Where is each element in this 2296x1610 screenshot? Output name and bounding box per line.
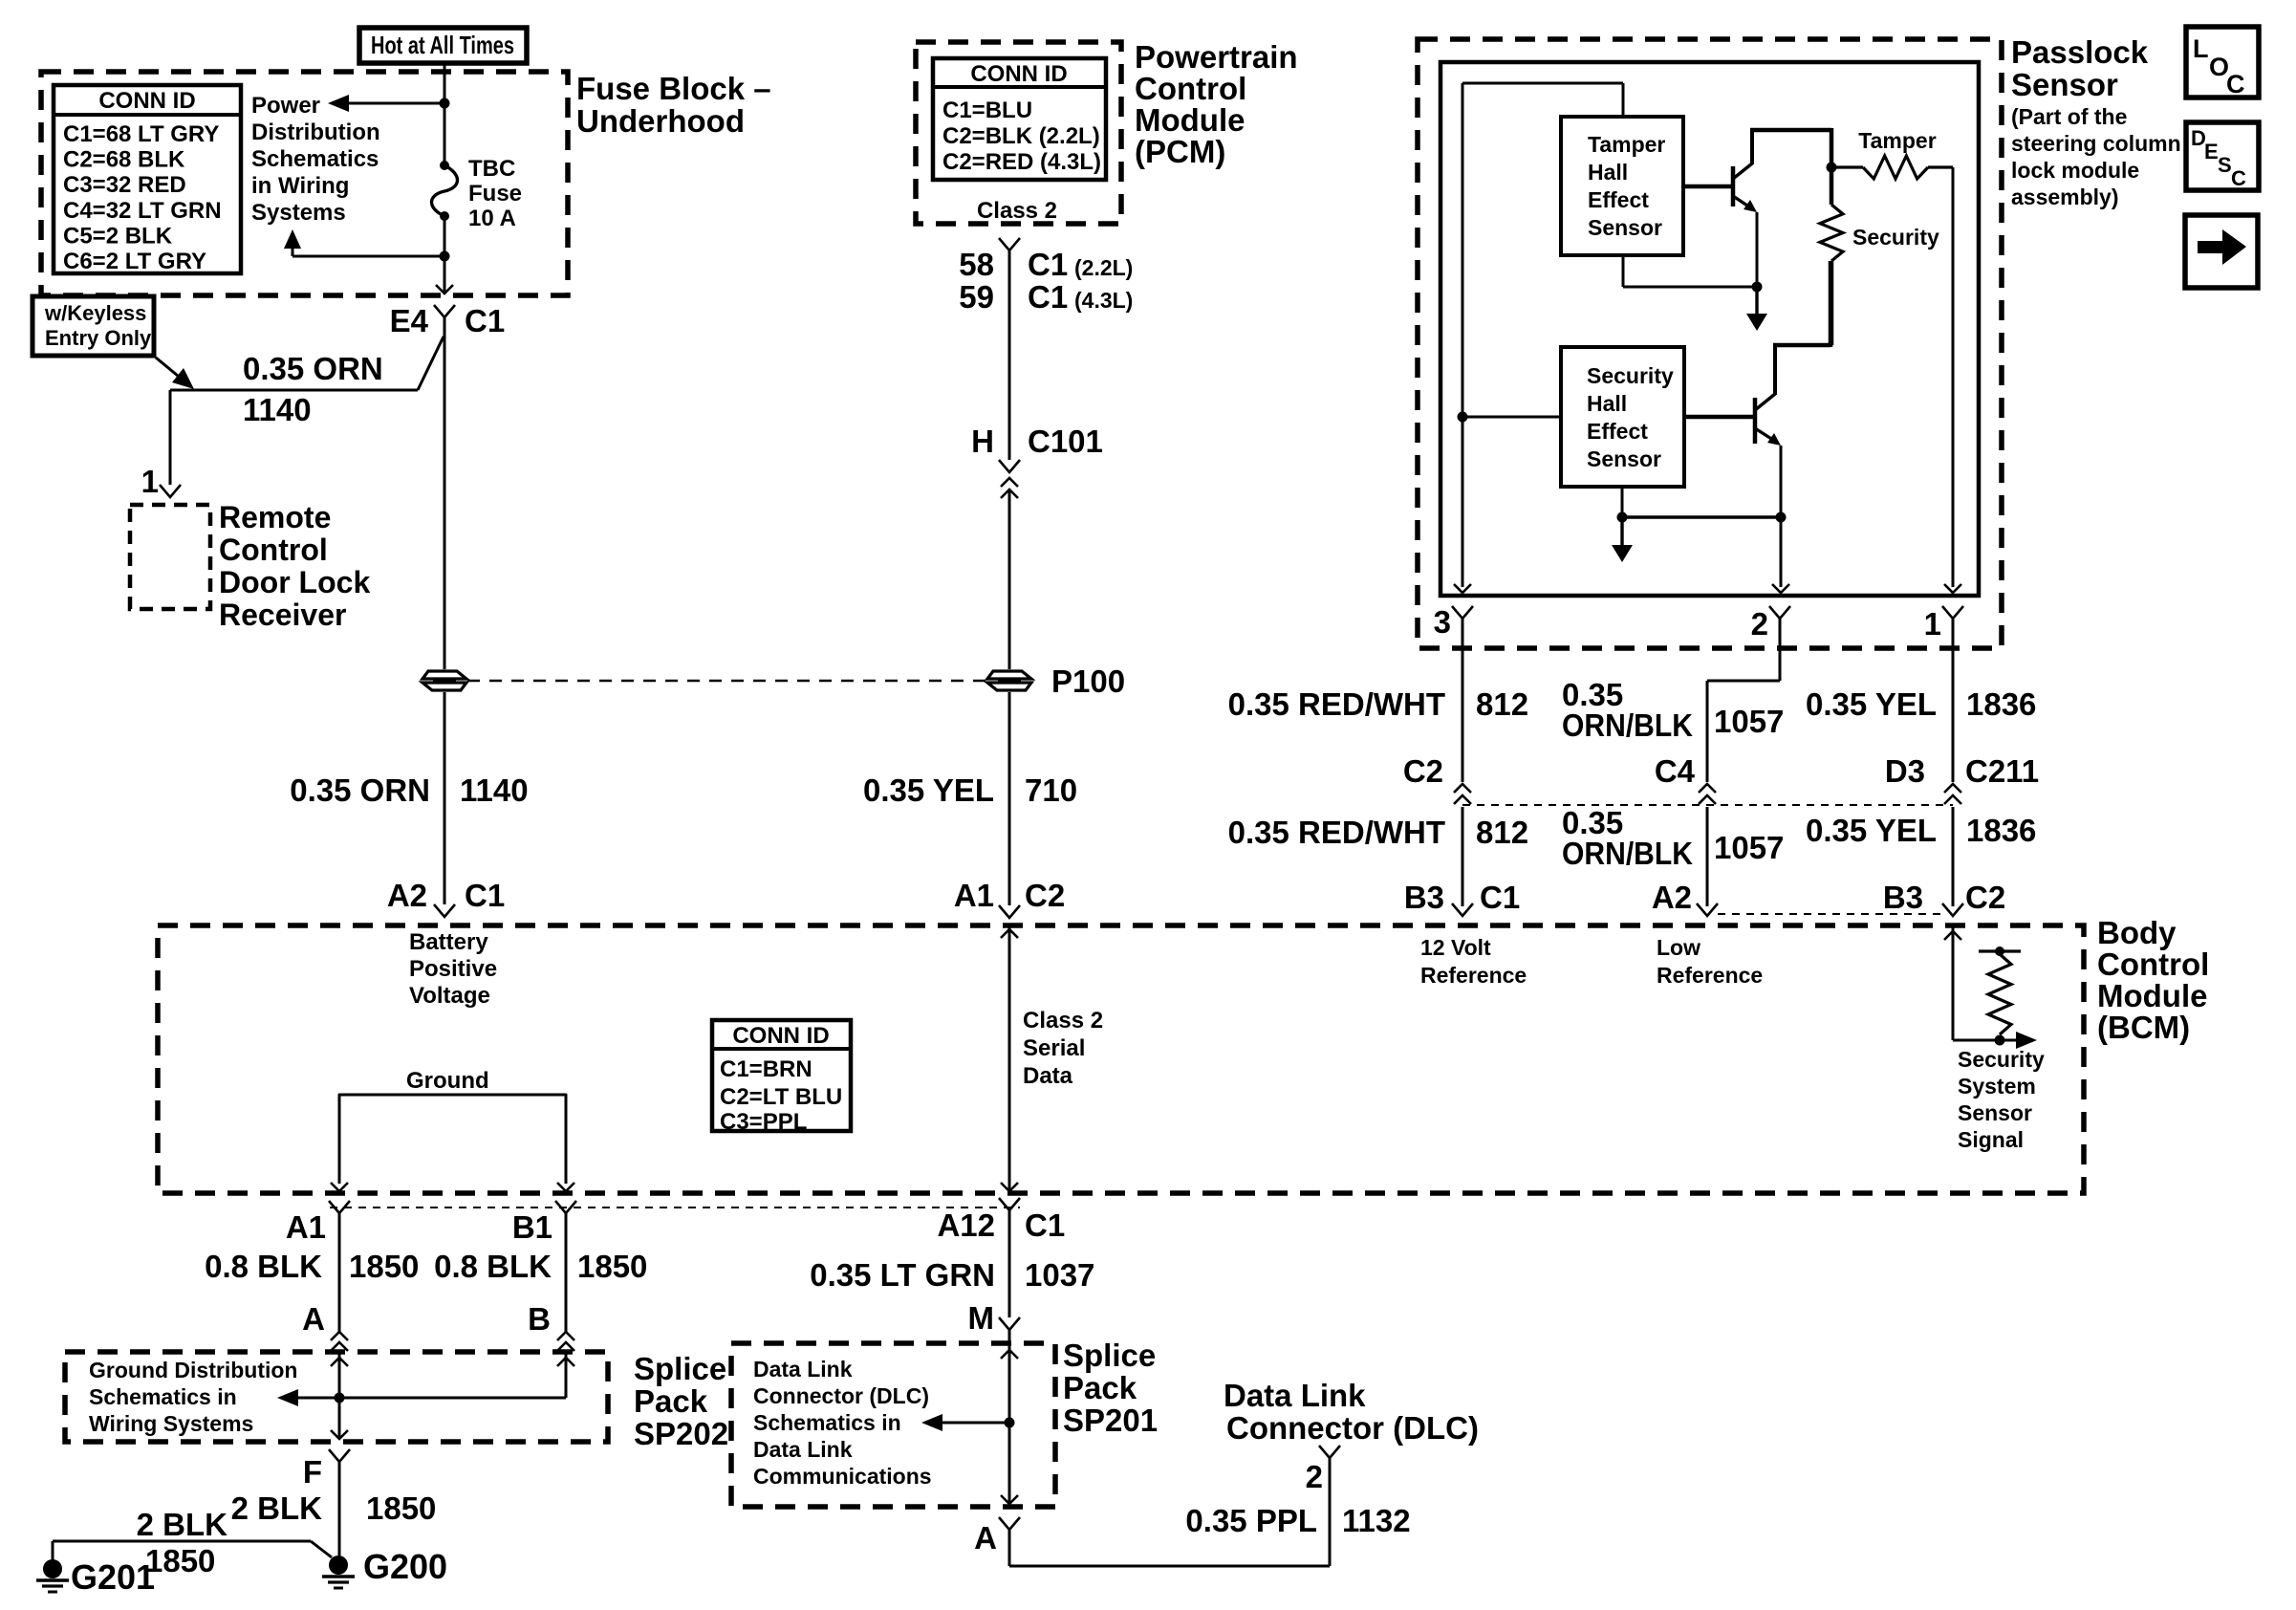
Q1 emitter diagonal [1733, 196, 1753, 209]
wire into tamper sensor top [1622, 83, 1625, 117]
wire security sensor bottom [1621, 487, 1624, 517]
Q2 collector to resistor [1829, 261, 1833, 347]
svg-text:SP202: SP202 [634, 1416, 728, 1451]
svg-text:1850: 1850 [349, 1249, 419, 1284]
junction splice [335, 1393, 345, 1403]
Q2 collector diagonal [1755, 394, 1775, 410]
tamper resistor lead right [1928, 165, 1953, 168]
svg-text:Effect: Effect [1587, 419, 1648, 444]
svg-text:S: S [2218, 153, 2232, 177]
svg-text:Fuse: Fuse [468, 181, 522, 207]
svg-text:w/Keyless: w/Keyless [44, 301, 146, 325]
connector C4 chevron [1699, 784, 1716, 793]
BCM fork A2 [1697, 903, 1718, 916]
connector F fork [329, 1449, 350, 1462]
svg-text:(4.3L): (4.3L) [1074, 288, 1133, 313]
fuse TBC 10A [432, 165, 458, 216]
wire B inside SP202 [565, 1352, 568, 1398]
tamper hall effect sensor box [1561, 117, 1683, 255]
inline connector P100 left half [422, 671, 466, 690]
keyless pointer line [156, 358, 184, 381]
arrow out of SP201 [1001, 1495, 1018, 1504]
wire pin 1 vertical [1952, 167, 1955, 587]
wire to P100 [1008, 491, 1011, 669]
arrow up A [331, 1358, 348, 1366]
svg-text:Data Link: Data Link [753, 1357, 853, 1382]
connector DLC pin 2 fork [1319, 1446, 1340, 1458]
svg-text:Sensor: Sensor [2011, 67, 2118, 102]
svg-text:Data: Data [1023, 1063, 1073, 1089]
ground G200 [329, 1556, 348, 1575]
svg-text:0.35 ORN: 0.35 ORN [290, 772, 430, 808]
connector C101 male arrow [1001, 478, 1018, 487]
wire C4 to BCM [1706, 807, 1709, 906]
arrow left power distribution [328, 95, 349, 112]
arrow down internal [1612, 545, 1633, 562]
wire top link [1462, 82, 1623, 85]
svg-text:Reference: Reference [1657, 963, 1763, 988]
svg-text:Module: Module [2097, 978, 2207, 1013]
svg-text:Power: Power [251, 93, 320, 119]
svg-text:H: H [971, 424, 994, 459]
svg-text:Class 2: Class 2 [1023, 1008, 1103, 1033]
junction SP201 [1005, 1418, 1015, 1428]
svg-text:Remote: Remote [219, 500, 331, 534]
svg-text:C2=BLK (2.2L): C2=BLK (2.2L) [942, 123, 1100, 149]
svg-text:Hall: Hall [1587, 391, 1627, 416]
svg-text:Battery: Battery [409, 929, 488, 955]
svg-text:A2: A2 [1652, 880, 1692, 915]
exit arrow fuse block [436, 285, 453, 294]
arrow left ground distribution [277, 1389, 298, 1406]
svg-text:A: A [302, 1301, 325, 1337]
svg-text:C3=PPL: C3=PPL [720, 1109, 807, 1135]
wire G201 drop [52, 1541, 54, 1560]
inline connector P100 right half [987, 671, 1031, 690]
svg-text:Security: Security [1852, 225, 1939, 250]
svg-text:Voltage: Voltage [409, 983, 490, 1009]
BCM CONN ID table [712, 1020, 851, 1131]
svg-text:Serial: Serial [1023, 1035, 1085, 1061]
wire 0.35 PPL horizontal [1009, 1565, 1330, 1568]
svg-text:Powertrain: Powertrain [1135, 39, 1298, 75]
svg-text:A1: A1 [954, 878, 994, 913]
svg-text:Splice: Splice [634, 1351, 726, 1386]
svg-text:Sensor: Sensor [1588, 215, 1662, 240]
svg-text:2 BLK: 2 BLK [231, 1490, 323, 1526]
svg-text:0.35 LT GRN: 0.35 LT GRN [810, 1257, 995, 1293]
keyless pointer arrowhead [172, 368, 194, 389]
svg-text:1140: 1140 [243, 392, 312, 427]
svg-text:1850: 1850 [577, 1249, 647, 1284]
svg-text:L: L [2193, 34, 2209, 63]
wire inside SP201 [1008, 1343, 1011, 1504]
pin 1 rail arrow [1944, 584, 1961, 593]
junction [440, 251, 450, 262]
inline dashed link A2 to B3 [1718, 913, 1942, 915]
svg-text:C2: C2 [1025, 878, 1065, 913]
junction [1776, 512, 1787, 523]
svg-text:1037: 1037 [1025, 1257, 1094, 1293]
junction [1617, 512, 1628, 523]
svg-text:C1: C1 [1025, 1207, 1065, 1243]
svg-text:Signal: Signal [1958, 1127, 2024, 1152]
svg-text:Schematics in: Schematics in [89, 1384, 237, 1409]
wire tamper sensor bottom [1622, 255, 1625, 287]
svg-text:59: 59 [959, 279, 994, 315]
pin 3 rail arrow [1454, 584, 1471, 593]
svg-text:0.35 YEL: 0.35 YEL [1806, 813, 1937, 848]
svg-text:A: A [974, 1520, 997, 1556]
BCM fork B3 C2 [1942, 903, 1963, 916]
connector A1 C2 fork [999, 905, 1020, 918]
Q1 collector diagonal [1733, 163, 1752, 179]
svg-text:A2: A2 [387, 878, 427, 913]
Q2 base wire [1684, 415, 1753, 420]
stub down [1755, 287, 1758, 315]
svg-text:0.8 BLK: 0.8 BLK [205, 1249, 322, 1284]
fuse block underhood dashed box [41, 72, 568, 295]
svg-text:D3: D3 [1885, 753, 1925, 789]
svg-text:710: 710 [1025, 772, 1077, 808]
svg-text:812: 812 [1476, 686, 1528, 722]
wire to power distribution arrow [338, 102, 444, 105]
body control module dashed box [158, 925, 2084, 1193]
Q1 collector drop [1830, 128, 1834, 167]
svg-text:G201: G201 [71, 1557, 155, 1597]
svg-text:Pack: Pack [1063, 1370, 1137, 1405]
svg-text:assembly): assembly) [2011, 185, 2119, 209]
svg-text:(PCM): (PCM) [1135, 134, 1225, 169]
svg-text:0.35 YEL: 0.35 YEL [1806, 686, 1937, 722]
svg-text:C4=32 LT GRN: C4=32 LT GRN [63, 198, 222, 224]
svg-text:A12: A12 [937, 1207, 995, 1243]
wire C2 to BCM [1462, 807, 1464, 906]
arrow right security system sensor signal [2016, 1032, 2037, 1049]
Q1 collector riser [1750, 130, 1754, 164]
PCM connector fork [999, 238, 1020, 250]
PCM CONN ID table [933, 58, 1106, 180]
svg-text:2 BLK: 2 BLK [137, 1507, 228, 1542]
junction resistor bottom [1995, 1035, 2005, 1046]
svg-text:Control: Control [219, 533, 328, 567]
wire 0.35 ORN to BCM [444, 692, 446, 904]
svg-text:C1: C1 [1028, 247, 1068, 282]
junction node [1458, 412, 1468, 423]
svg-text:Control: Control [2097, 946, 2209, 982]
svg-text:G200: G200 [363, 1547, 447, 1586]
svg-text:E4: E4 [390, 303, 429, 338]
svg-text:Connector (DLC): Connector (DLC) [753, 1383, 929, 1408]
inline connector dashed line C1 [330, 1207, 1020, 1208]
svg-text:0.8 BLK: 0.8 BLK [434, 1249, 552, 1284]
Q2 collector link [1773, 343, 1830, 348]
connector E4 C1 fork [434, 305, 455, 317]
svg-text:1850: 1850 [366, 1490, 436, 1526]
svg-text:C4: C4 [1655, 753, 1696, 789]
arrow down internal [1746, 314, 1767, 331]
svg-text:1: 1 [1924, 606, 1941, 642]
svg-text:Module: Module [1135, 102, 1245, 138]
svg-text:Body: Body [2097, 915, 2177, 950]
svg-text:58: 58 [959, 247, 994, 282]
svg-text:M: M [968, 1300, 995, 1336]
svg-text:C1: C1 [1480, 880, 1520, 915]
ground wire U [339, 1095, 566, 1184]
junction [440, 98, 450, 109]
connector M fork [999, 1317, 1020, 1330]
LOC icon box [2186, 27, 2259, 98]
svg-text:Tamper: Tamper [1858, 128, 1936, 153]
svg-text:Door Lock: Door Lock [219, 565, 370, 599]
svg-text:TBC: TBC [468, 156, 515, 182]
connector A12 C1 fork [999, 1198, 1020, 1210]
arrow into BCM [1001, 929, 1018, 938]
svg-text:1: 1 [141, 464, 159, 499]
svg-text:C1=68 LT GRY: C1=68 LT GRY [63, 121, 219, 147]
wire C211 to BCM [1952, 807, 1955, 906]
junction collector resistors [1827, 163, 1837, 173]
svg-text:0.35 RED/WHT: 0.35 RED/WHT [1228, 686, 1445, 722]
wire pin 2 to C4 [1706, 681, 1709, 782]
svg-text:Entry Only: Entry Only [45, 326, 152, 350]
svg-text:C1=BLU: C1=BLU [942, 98, 1032, 123]
svg-text:(BCM): (BCM) [2097, 1010, 2190, 1045]
connector C101 fork [999, 460, 1020, 472]
svg-text:Control: Control [1135, 71, 1246, 106]
passlock sensor inner box [1440, 62, 1979, 596]
svg-text:C1: C1 [1028, 279, 1068, 315]
arrow icon box [2185, 215, 2258, 288]
svg-text:C5=2 BLK: C5=2 BLK [63, 223, 173, 249]
svg-text:Receiver: Receiver [219, 598, 346, 632]
arrow up B [557, 1358, 574, 1366]
transistor Q2 base bar [1753, 398, 1758, 444]
wire fuse to connector E4 [444, 216, 446, 293]
svg-text:Security: Security [1587, 363, 1674, 388]
svg-text:C2=RED (4.3L): C2=RED (4.3L) [942, 149, 1101, 175]
svg-text:lock module: lock module [2011, 158, 2139, 183]
DESC icon box [2186, 122, 2259, 190]
svg-text:1057: 1057 [1714, 830, 1784, 865]
Q1 collector top link [1750, 128, 1831, 133]
svg-text:(Part of the: (Part of the [2011, 104, 2127, 129]
transistor Q1 base bar [1731, 166, 1736, 207]
wire security signal inside BCM [1952, 927, 1955, 1040]
svg-text:Sensor: Sensor [1587, 446, 1661, 471]
svg-text:B3: B3 [1404, 880, 1444, 915]
arrow left DLC schematics [921, 1414, 942, 1431]
wire to emitter junction [1623, 286, 1757, 289]
Q1 base wire [1684, 185, 1731, 189]
svg-text:Communications: Communications [753, 1464, 932, 1489]
Q2 emitter wire [1780, 446, 1783, 587]
svg-text:Hall: Hall [1588, 160, 1628, 185]
svg-text:E: E [2204, 140, 2219, 163]
svg-text:1836: 1836 [1966, 813, 2036, 848]
tamper resistor lead [1831, 165, 1863, 168]
wire E4 to P100 [444, 340, 446, 669]
w/keyless entry box [32, 296, 154, 356]
wire class 2 serial data from PCM [1008, 250, 1011, 460]
svg-text:P100: P100 [1051, 664, 1125, 699]
splice pack A chevron [331, 1332, 348, 1340]
wire down to remote receiver [169, 390, 172, 485]
powertrain control module dashed box [916, 42, 1121, 224]
security hall effect sensor box [1561, 347, 1684, 487]
svg-text:Schematics: Schematics [251, 146, 379, 172]
wire hot at all times to fuse [444, 63, 446, 165]
BCM fork B3 C1 [1452, 903, 1473, 916]
svg-text:F: F [303, 1454, 322, 1490]
svg-text:Splice: Splice [1063, 1338, 1156, 1373]
svg-text:0.35 ORN: 0.35 ORN [243, 351, 383, 386]
svg-text:B: B [528, 1301, 551, 1337]
arrow up SP201 [1001, 1350, 1018, 1359]
wire B to junction [339, 1397, 566, 1400]
connector C2 chevron [1454, 784, 1471, 793]
ground arrow left [331, 1183, 348, 1191]
svg-text:1132: 1132 [1342, 1503, 1411, 1538]
wire branch left [292, 255, 444, 258]
svg-text:1836: 1836 [1966, 686, 2036, 722]
wire 0.35 YEL to BCM [1008, 692, 1011, 905]
svg-text:CONN ID: CONN ID [98, 88, 195, 114]
arrow icon head [2222, 229, 2246, 265]
ground G201 [43, 1559, 62, 1578]
junction [1752, 282, 1763, 293]
svg-text:1057: 1057 [1714, 704, 1784, 739]
wire emitter to sensor common [1622, 515, 1781, 518]
fuse TBC bottom terminal [440, 211, 449, 221]
svg-text:Connector (DLC): Connector (DLC) [1226, 1410, 1479, 1446]
security resistor top lead [1830, 167, 1834, 205]
connector A2 C1 fork [434, 904, 455, 917]
arrow out of SP202 [331, 1430, 348, 1439]
Q2 collector riser [1773, 345, 1777, 395]
svg-text:C: C [2226, 70, 2245, 98]
pin 2 rail arrow [1772, 584, 1789, 593]
connector pin 1 fork [160, 485, 181, 497]
connector A fork [999, 1517, 1020, 1530]
svg-text:Low: Low [1657, 935, 1700, 960]
svg-text:System: System [1958, 1074, 2036, 1099]
svg-text:10 A: 10 A [468, 206, 516, 231]
svg-text:Tamper: Tamper [1588, 132, 1665, 157]
arrow up to power distribution [284, 229, 301, 249]
svg-text:C1: C1 [465, 303, 505, 338]
svg-text:Sensor: Sensor [1958, 1100, 2032, 1125]
svg-text:ORN/BLK: ORN/BLK [1562, 836, 1693, 871]
svg-text:C2: C2 [1965, 880, 2005, 915]
svg-text:Underhood: Underhood [576, 103, 745, 139]
Q1 emitter arrowhead [1744, 200, 1757, 212]
splice pack SP201 dashed box [731, 1343, 1055, 1507]
pin 1 fork [1942, 606, 1963, 619]
svg-text:Fuse Block –: Fuse Block – [576, 71, 771, 106]
svg-text:A1: A1 [286, 1209, 326, 1245]
svg-text:0.35 RED/WHT: 0.35 RED/WHT [1228, 815, 1445, 850]
pin 3 fork [1452, 606, 1473, 619]
svg-text:1140: 1140 [460, 772, 529, 808]
svg-text:C2: C2 [1403, 753, 1443, 789]
svg-text:C2=LT BLU: C2=LT BLU [720, 1084, 842, 1110]
fuse TBC top terminal [440, 161, 449, 170]
connector A1 fork [329, 1201, 350, 1213]
svg-text:Data Link: Data Link [1224, 1378, 1366, 1413]
svg-text:CONN ID: CONN ID [732, 1023, 829, 1049]
wire diagonal to G200 [311, 1541, 332, 1557]
stub down [1620, 517, 1623, 547]
svg-text:Wiring Systems: Wiring Systems [89, 1411, 253, 1436]
svg-text:C2=68 BLK: C2=68 BLK [63, 147, 185, 173]
hot at all times box [359, 28, 527, 63]
wire pin 3 vertical [1462, 83, 1464, 587]
resistor Security [1820, 205, 1843, 261]
svg-text:3: 3 [1434, 604, 1451, 640]
svg-text:Class 2: Class 2 [977, 198, 1057, 224]
wire diagonal from E4 [418, 337, 444, 390]
svg-text:in Wiring: in Wiring [251, 173, 349, 199]
svg-text:0.35 YEL: 0.35 YEL [863, 772, 994, 808]
svg-text:Effect: Effect [1588, 187, 1649, 212]
svg-text:ORN/BLK: ORN/BLK [1562, 707, 1693, 743]
wire to G201 [53, 1540, 311, 1543]
svg-text:B3: B3 [1883, 880, 1923, 915]
svg-text:Pack: Pack [634, 1383, 708, 1419]
ground arrow right [557, 1183, 574, 1191]
svg-text:Positive: Positive [409, 956, 497, 982]
security resistor bottom lead [1830, 261, 1834, 345]
wire class 2 inside BCM [1008, 925, 1011, 1193]
P100 dashed link [467, 680, 986, 683]
svg-text:Reference: Reference [1420, 963, 1527, 988]
wire to security sensor input [1462, 416, 1561, 419]
arrow into BCM right [1944, 931, 1961, 940]
wire to sensor signal arrow [1953, 1039, 2025, 1042]
Q2 emitter arrowhead [1767, 433, 1781, 446]
svg-text:Schematics in: Schematics in [753, 1410, 901, 1435]
wire A inside SP202 [338, 1352, 341, 1439]
svg-text:Systems: Systems [251, 200, 346, 226]
arrow icon [2198, 241, 2224, 253]
resistor Tamper [1863, 156, 1928, 179]
svg-text:C1=BRN: C1=BRN [720, 1056, 812, 1082]
svg-text:2: 2 [1306, 1459, 1323, 1494]
svg-text:1850: 1850 [145, 1543, 215, 1578]
splice pack B chevron [557, 1332, 574, 1340]
svg-text:Ground: Ground [406, 1068, 489, 1094]
svg-text:812: 812 [1476, 815, 1528, 850]
junction resistor top [1995, 946, 2004, 956]
svg-text:0.35 PPL: 0.35 PPL [1185, 1503, 1317, 1538]
svg-text:12 Volt: 12 Volt [1420, 935, 1491, 960]
wire to DLC schematics arrow [933, 1422, 1009, 1425]
svg-text:Distribution: Distribution [251, 120, 380, 145]
connector B1 fork [555, 1201, 576, 1213]
svg-text:C3=32 RED: C3=32 RED [63, 172, 186, 198]
svg-text:(2.2L): (2.2L) [1074, 255, 1133, 280]
svg-text:C: C [2231, 166, 2246, 190]
svg-text:B1: B1 [512, 1209, 552, 1245]
pin 2 fork [1769, 606, 1790, 619]
svg-text:C211: C211 [1965, 753, 2039, 789]
svg-text:C6=2 LT GRY: C6=2 LT GRY [63, 249, 206, 274]
passlock sensor dashed box [1418, 39, 2002, 648]
svg-text:SP201: SP201 [1063, 1403, 1158, 1438]
arrow out of BCM [1001, 1183, 1018, 1191]
connector C211 chevron [1944, 784, 1961, 793]
